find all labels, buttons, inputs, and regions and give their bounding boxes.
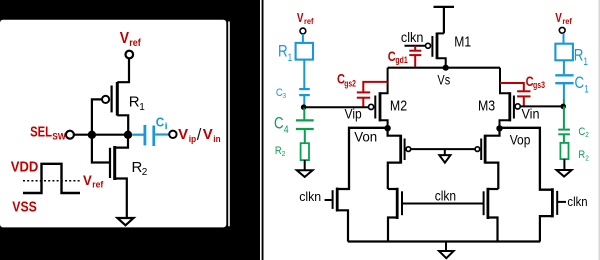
svg-text:2: 2 (142, 167, 148, 178)
wire node to C4 (green) (303, 107, 305, 119)
svg-text:gs2: gs2 (344, 78, 356, 88)
terminal Vip/Vin (169, 131, 176, 138)
wire C3 to node (blue) (303, 96, 305, 107)
svg-text:ref: ref (562, 17, 572, 26)
svg-text:Vs: Vs (437, 72, 450, 88)
svg-text:Vin: Vin (522, 106, 540, 122)
terminal Vref (126, 51, 134, 59)
svg-text:ref: ref (92, 180, 104, 190)
junction dot Vop (496, 125, 502, 131)
terminal SELsw (66, 131, 74, 139)
svg-text:VSS: VSS (12, 199, 37, 216)
capacitor C4 (296, 120, 314, 129)
transistor M3 (PMOS, mirrored) (500, 92, 521, 128)
svg-text:M1: M1 (454, 33, 471, 50)
capacitor Cgd1 (409, 46, 421, 67)
junction dot Von (384, 125, 390, 131)
transistor M1 (PMOS) (426, 33, 446, 67)
resistor R2 (right branch) (560, 143, 568, 159)
wire clkn gate (outer-left) (325, 199, 332, 201)
svg-text:V: V (83, 172, 92, 188)
junction dot Vs (443, 65, 449, 71)
ground (bottom) (439, 251, 454, 258)
wire bottom rail (348, 240, 540, 242)
wire Vip net (304, 106, 369, 108)
wire Vs to M3 source (500, 68, 510, 94)
transistor R2 (NMOS) (110, 146, 115, 180)
wire clkn to M1 gate (405, 45, 426, 47)
svg-text:R: R (129, 94, 140, 111)
waveform pulse (23, 164, 80, 193)
left panel edge highlight line (228, 22, 230, 227)
wire R2 to ground (black) (304, 160, 306, 170)
wire R2 source to ground (115, 179, 127, 218)
wire latch gates (411, 148, 475, 150)
wire node to R2 drain (115, 135, 128, 148)
latch PMOS right (475, 128, 499, 189)
transistor clkn middle-left (NMOS) (388, 188, 402, 242)
svg-text:2: 2 (282, 149, 286, 158)
capacitor Cgs3 (500, 83, 531, 106)
svg-text:Vip: Vip (345, 106, 362, 122)
svg-text:C: C (156, 115, 165, 130)
capacitor C2 (558, 130, 570, 135)
svg-text:V: V (555, 11, 562, 25)
right panel right border (598, 0, 600, 260)
wire Vin net (520, 105, 563, 107)
svg-text:C: C (274, 114, 284, 133)
capacitor C1 (555, 75, 573, 83)
svg-text:M3: M3 (478, 98, 495, 115)
latch PMOS left (388, 128, 411, 189)
junction dot Vip node (301, 104, 307, 110)
svg-text:/: / (197, 126, 202, 144)
svg-text:ip: ip (189, 134, 197, 145)
wire C4 to R2 (green) (304, 130, 306, 144)
svg-text:ref: ref (304, 17, 314, 26)
wire Vs rail (388, 67, 500, 69)
capacitor Ci (132, 125, 169, 146)
wire R1 to C3 (303, 60, 305, 88)
svg-text:V: V (120, 30, 130, 47)
supply T bar of M1 (434, 7, 455, 34)
svg-text:R: R (278, 42, 288, 61)
ground (left panel) (117, 218, 133, 225)
svg-text:1: 1 (139, 102, 145, 113)
transistor M2 (PMOS) (369, 92, 388, 128)
wire R2 to ground (right, black) (563, 159, 565, 170)
svg-text:in: in (213, 134, 220, 145)
left panel background (0, 20, 226, 228)
wire Vref to R1 (right, blue) (563, 33, 565, 44)
svg-text:M2: M2 (390, 98, 407, 115)
transistor R1 (PMOS) (102, 82, 117, 116)
junction dot Vin node (560, 104, 566, 110)
wire C2 to R2 (green) (563, 135, 565, 143)
svg-text:R: R (574, 45, 584, 64)
svg-text:i: i (165, 121, 168, 131)
capacitor C3 (299, 89, 310, 95)
svg-text:Von: Von (354, 129, 377, 145)
svg-text:V: V (297, 11, 304, 25)
wire C1 to node (blue then green) (563, 84, 565, 99)
capacitor Cgs2 (357, 82, 388, 107)
svg-text:Vop: Vop (510, 131, 531, 147)
wire R1 drain to node (117, 115, 128, 134)
svg-text:gs3: gs3 (533, 80, 545, 90)
terminal Vref right (559, 27, 565, 33)
wire Vs to M2 source (380, 68, 388, 94)
wire Vref to R1 (blue) (302, 34, 304, 43)
transistor clkn outer-right (NMOS, mirrored) (540, 188, 557, 241)
svg-text:4: 4 (284, 124, 289, 136)
svg-text:V: V (203, 126, 213, 143)
wire Vref to R1 source (117, 59, 129, 83)
right panel background (264, 0, 600, 260)
waveform Vref dotted level (23, 180, 82, 182)
svg-text:SW: SW (52, 132, 66, 142)
wire clkn gate (middle) (403, 203, 483, 205)
resistor R1 (left branch) (296, 43, 313, 60)
transistor clkn outer-left (NMOS) (333, 188, 348, 242)
wire rail to ground (445, 242, 447, 251)
svg-text:2: 2 (585, 130, 589, 139)
svg-text:SEL: SEL (30, 125, 52, 141)
right panel edge highlight line (260, 0, 262, 260)
ground (right branch) (557, 170, 572, 177)
wire node to C2 (green) (563, 106, 565, 128)
svg-text:2: 2 (585, 153, 589, 162)
svg-text:C: C (575, 73, 585, 92)
svg-text:VDD: VDD (11, 158, 39, 175)
wire clkn gate (outer-right) (558, 201, 566, 203)
svg-text:1: 1 (584, 84, 589, 96)
ground (left branch) (297, 170, 313, 177)
junction dot output node (124, 131, 132, 139)
wire SELsw to output node (74, 134, 128, 136)
svg-text:clkn: clkn (401, 29, 424, 45)
wire R1 to C1 (563, 60, 565, 74)
svg-text:clkn: clkn (299, 189, 321, 204)
svg-text:gd1: gd1 (395, 55, 407, 65)
resistor R2 (left branch) (301, 143, 309, 160)
svg-text:ref: ref (129, 38, 141, 49)
junction dot on gate line (88, 131, 96, 139)
transistor clkn middle-right (NMOS, mirrored) (484, 188, 499, 242)
resistor R1 (right branch) (555, 44, 573, 61)
terminal Vref left (300, 28, 306, 34)
wire Von to left branch (337, 128, 387, 189)
svg-text:1: 1 (583, 56, 588, 68)
svg-text:V: V (178, 126, 188, 143)
wire gate chain from PMOS bubble to NMOS gate (92, 99, 110, 162)
svg-text:clkn: clkn (567, 194, 587, 209)
svg-text:clkn: clkn (435, 187, 456, 203)
svg-text:3: 3 (283, 91, 287, 100)
wire Vop to right branch (500, 128, 553, 190)
svg-text:1: 1 (288, 52, 293, 64)
ground (latch middle) (444, 149, 446, 155)
